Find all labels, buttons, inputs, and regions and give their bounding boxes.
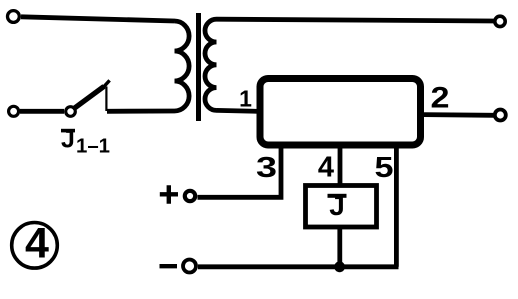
figure number circle 4 [12,220,58,269]
transformer secondary winding T1 right coil [205,19,217,110]
switch fixed contact drop wire [105,87,107,112]
wire left-middle terminal to switch pivot [20,109,64,114]
terminal minus [183,260,196,273]
svg-text:1: 1 [239,86,252,112]
transformer core [196,13,201,121]
wire pin 4 to relay J [338,148,343,184]
terminal left-middle [9,106,19,116]
module U1 box [260,79,421,146]
plus sign [160,185,178,204]
wire pin 2 to right terminal [424,112,494,118]
terminal right (pin 2) [495,110,506,121]
svg-text:2: 2 [431,82,450,115]
terminal plus [185,191,195,201]
wire secondary bottom bar to module pin 1 [217,110,261,111]
svg-text:4: 4 [25,220,49,268]
svg-text:5: 5 [375,152,394,184]
label J1-1 [61,125,110,157]
minus sign [160,264,178,268]
bottom rail wire [198,264,399,269]
wire relay J to bottom rail [337,227,342,267]
wire pin 3 to plus terminal [198,148,282,197]
relay coil J box [306,186,377,228]
switch blade tip hook [103,80,110,88]
transformer primary winding T1 left coil [175,21,190,111]
wire pin 5 to bottom rail [394,148,399,267]
wire primary bottom bar to switch [107,109,175,114]
switch J1-1 pivot contact [66,107,76,117]
switch J1-1 blade [74,86,104,108]
terminal top-left [7,11,19,23]
relay label J [328,190,347,221]
svg-text:3: 3 [256,152,277,184]
terminal top-right [495,16,505,26]
svg-text:1–1: 1–1 [76,135,110,157]
svg-text:4: 4 [318,152,334,184]
wire top-left to transformer primary [21,17,175,21]
wire secondary top to top-right terminal [217,19,494,21]
junction dot [334,261,345,272]
